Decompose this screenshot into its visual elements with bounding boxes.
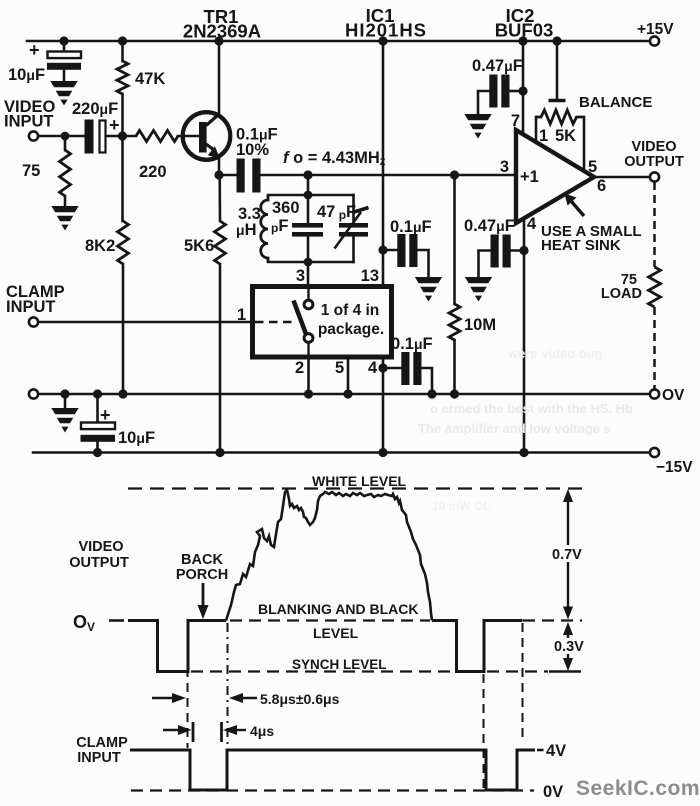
node OV pin5	[343, 389, 352, 398]
svg-text:were video oug: were video oug	[507, 346, 603, 361]
svg-text:7: 7	[511, 112, 520, 130]
svg-text:8K2: 8K2	[85, 237, 115, 255]
node OV pin2	[304, 389, 313, 398]
clamp 0V dashed line	[131, 789, 534, 791]
capacitor 0.47uF lower decoupling	[491, 235, 511, 268]
switch pin3 stub inside box	[307, 289, 309, 300]
wire dashed load to OV	[653, 307, 656, 389]
svg-text:BUF03: BUF03	[495, 20, 554, 41]
node OV 10uF	[93, 389, 102, 398]
switch lever	[294, 301, 307, 335]
svg-text:+15V: +15V	[637, 21, 674, 38]
measure tick bar left	[192, 722, 195, 742]
dashed vertical back porch start	[187, 623, 189, 748]
wire tank node drop	[307, 175, 310, 195]
svg-text:+1: +1	[520, 168, 539, 186]
measure tick bar right	[220, 722, 223, 742]
svg-text:5K: 5K	[555, 127, 576, 145]
wire 0.1uF to tank node	[261, 174, 309, 177]
video waveform blanking baseline left	[128, 621, 226, 672]
svg-text:0V: 0V	[543, 783, 563, 801]
clamp input waveform	[130, 750, 535, 790]
wire 0.1uF pin4 return	[422, 368, 433, 394]
svg-text:OUTPUT: OUTPUT	[69, 555, 129, 571]
svg-text:2: 2	[295, 359, 304, 377]
wire IC1 pin13 supply column	[382, 41, 385, 285]
wire 10uF bottom cap to -15V	[96, 442, 99, 453]
node top rail 47K	[118, 36, 127, 45]
svg-text:4V: 4V	[546, 742, 566, 760]
capacitor 0.1uF emitter coupling	[237, 159, 261, 193]
svg-text:package.: package.	[318, 321, 384, 338]
node pin4 cap tap	[378, 363, 387, 372]
synch level solid bar under arrow	[549, 670, 581, 673]
node OV 8K2	[118, 389, 127, 398]
svg-text:pF: pF	[271, 217, 288, 235]
svg-text:SeekIC.com: SeekIC.com	[576, 777, 700, 800]
wire 10uF top cap stem	[63, 41, 66, 52]
svg-text:CLAMP: CLAMP	[76, 735, 128, 751]
wire 0.47uF top to ground	[478, 91, 489, 114]
wire 360pF branch top	[307, 195, 310, 223]
svg-text:INPUT: INPUT	[4, 113, 54, 131]
svg-text:HEAT SINK: HEAT SINK	[541, 237, 621, 254]
wire op-amp output	[594, 176, 650, 179]
transistor base bar	[199, 122, 207, 153]
terminal video output	[650, 172, 659, 181]
potentiometer 5K balance	[536, 110, 584, 124]
resistor 5K6	[215, 221, 226, 264]
4V tick dash	[537, 749, 544, 752]
capacitor 0.47uF top decoupling	[489, 75, 509, 108]
dashed vertical second sync	[483, 674, 485, 788]
svg-text:+: +	[109, 115, 120, 135]
potentiometer wiper bar	[549, 99, 566, 102]
switch dashed control line	[255, 321, 296, 323]
wire balance pot right leg	[583, 117, 586, 171]
svg-text:0.47μF: 0.47μF	[472, 57, 523, 75]
svg-text:47K: 47K	[135, 70, 165, 88]
svg-text:10M: 10M	[464, 316, 496, 334]
svg-text:5.8μs±0.6μs: 5.8μs±0.6μs	[260, 691, 340, 707]
wire video input to node	[38, 135, 84, 138]
white level dashed line	[128, 487, 582, 489]
svg-text:LOAD: LOAD	[601, 286, 642, 302]
back porch arrow	[198, 583, 209, 619]
svg-text:3: 3	[296, 267, 305, 285]
wire emitter node to 0.1uF	[219, 174, 237, 177]
svg-text:6: 6	[597, 177, 606, 195]
wire 47K column top	[121, 41, 124, 61]
svg-text:13: 13	[361, 267, 379, 285]
wire balance pot left leg	[535, 117, 538, 143]
svg-text:OV: OV	[662, 387, 685, 404]
svg-text:4μs: 4μs	[250, 723, 274, 739]
video waveform baseline right and sync pulse	[432, 621, 523, 672]
svg-text:0.1μF: 0.1μF	[390, 218, 432, 236]
svg-text:BALANCE: BALANCE	[579, 94, 652, 111]
svg-text:1: 1	[237, 306, 246, 324]
node tank bottom	[304, 258, 313, 267]
svg-text:HI201HS: HI201HS	[345, 20, 427, 41]
svg-text:0.47μF: 0.47μF	[464, 217, 515, 235]
ground 0.1uF pin13	[415, 277, 442, 302]
resistor 75	[60, 150, 71, 196]
wire 47K to base node	[121, 94, 124, 221]
wire tank top horizontal	[268, 194, 354, 197]
capacitor 0.1uF pin4 decoupling	[401, 352, 421, 385]
node -15V pin4	[378, 448, 387, 457]
node OV 10M	[450, 389, 459, 398]
terminal OV left	[29, 389, 38, 398]
svg-text:0.1μF: 0.1μF	[391, 335, 433, 353]
wire +15V top rail	[27, 40, 650, 43]
svg-text:5K6: 5K6	[184, 237, 214, 255]
wire 0.47uF lower to ground	[479, 251, 491, 278]
svg-text:WHITE LEVEL: WHITE LEVEL	[312, 473, 407, 489]
wire 5K6 to -15V rail	[219, 264, 222, 453]
node -15V opamp	[519, 448, 528, 457]
resistor 8K2	[118, 221, 129, 264]
svg-text:10 mW OL: 10 mW OL	[432, 499, 491, 513]
svg-text:OUTPUT: OUTPUT	[624, 154, 684, 170]
node 10M top	[450, 170, 459, 179]
svg-text:INPUT: INPUT	[6, 298, 56, 316]
svg-text:LEVEL: LEVEL	[313, 625, 359, 641]
ground below 10uF top	[50, 81, 77, 106]
transistor Q1 circle	[183, 112, 231, 160]
node top rail IC1 supply	[378, 36, 387, 45]
capacitor 10uF bottom electrolytic	[81, 423, 116, 442]
wire 0.47uF lower tap	[506, 249, 525, 252]
wire 10M top	[453, 175, 456, 304]
0.7V arrow	[563, 489, 573, 620]
wire 8K2 to OV rail	[122, 264, 125, 394]
svg-text:f o = 4.43MHz: f o = 4.43MHz	[283, 149, 386, 168]
node top rail 10uF	[59, 36, 68, 45]
blanking dashed right	[523, 619, 582, 621]
terminal -15V	[650, 448, 659, 457]
node base bias	[118, 131, 127, 140]
synch level dashed right	[487, 670, 548, 672]
wire tank bottom horizontal	[268, 261, 354, 264]
wire pin13 decoupling tap	[383, 249, 397, 252]
wire balance wiper	[556, 41, 559, 100]
wire pin4 decoupling tap	[383, 367, 401, 370]
node OV cap return	[427, 389, 436, 398]
svg-text:47 pF: 47 pF	[317, 203, 356, 222]
resistor 220	[136, 131, 178, 142]
svg-text:5: 5	[335, 359, 344, 377]
wire 0.1uF pin13 return	[416, 250, 429, 277]
blanking dashed under hump	[230, 619, 430, 621]
svg-text:360: 360	[272, 199, 300, 217]
svg-text:3: 3	[500, 158, 509, 176]
capacitor 47pF variable	[339, 223, 368, 237]
wire signal line tank node to 10M node	[308, 174, 455, 177]
svg-text:PORCH: PORCH	[176, 567, 228, 583]
ground on OV rail	[51, 408, 78, 433]
inductor 3.3uH	[261, 195, 268, 262]
svg-text:10μF: 10μF	[118, 429, 155, 447]
wire signal to op-amp pin 3	[455, 174, 517, 177]
svg-text:75: 75	[22, 162, 40, 180]
4us arrow left	[163, 725, 192, 735]
wire 10uF bottom cap stem	[96, 394, 99, 423]
wire 0.47uF top tap	[510, 90, 523, 93]
wire 75 resistor stem	[64, 136, 67, 150]
capacitor 0.1uF pin13 decoupling	[397, 234, 417, 267]
wire 360pF branch bottom	[307, 237, 310, 263]
svg-text:+: +	[29, 40, 40, 60]
transistor emitter arrowhead	[208, 146, 220, 158]
svg-text:4: 4	[368, 359, 378, 377]
svg-text:10%: 10%	[236, 141, 269, 159]
wire 10M bottom	[453, 340, 456, 394]
svg-text:0.3V: 0.3V	[554, 639, 584, 655]
wire 10uF top cap to ground	[63, 70, 66, 82]
capacitor 10uF top electrolytic	[47, 52, 81, 70]
node pin13 cap tap	[378, 245, 387, 254]
wire switch pin 2	[307, 359, 310, 394]
node video input	[61, 132, 70, 141]
svg-text:+: +	[100, 405, 111, 425]
Ov tick dash	[109, 619, 124, 622]
svg-text:BLANKING AND BLACK: BLANKING AND BLACK	[258, 601, 418, 617]
svg-text:The amplifier and low voltage: The amplifier and low voltage s	[418, 421, 611, 436]
op-amp U2 triangle	[516, 130, 594, 223]
svg-text:10μF: 10μF	[8, 66, 45, 84]
switch pin2 stub inside box	[307, 342, 309, 355]
wire clamp input to switch pin 1	[38, 321, 250, 324]
wire ground stub on OV rail	[64, 394, 67, 408]
wire 220uF cap to base node	[107, 135, 137, 138]
svg-text:1: 1	[539, 127, 548, 145]
resistor 10M	[449, 304, 460, 340]
node 0.47uF top tap	[518, 86, 527, 95]
resistor 75 LOAD	[649, 267, 661, 307]
terminal +15V	[650, 36, 659, 45]
wire switch pin 4	[382, 359, 385, 453]
terminal video input	[29, 131, 38, 140]
wire collector	[218, 41, 221, 113]
terminal OV	[650, 389, 659, 398]
wire emitter column to 5K6	[218, 175, 221, 221]
wire emitter down	[218, 156, 221, 175]
synch level dashed	[191, 670, 453, 672]
0.3V arrow	[563, 622, 573, 671]
trimmer arrow 47pF	[335, 208, 369, 249]
wire dashed output to load	[653, 182, 656, 267]
svg-text:μH: μH	[236, 221, 257, 239]
svg-text:VIDEO: VIDEO	[78, 539, 123, 555]
wire 47pF branch bottom	[352, 237, 355, 263]
wire op-amp pin4 down	[523, 219, 526, 453]
4us arrow right	[223, 725, 246, 735]
svg-text:1 of 4 in: 1 of 4 in	[321, 302, 380, 319]
svg-text:220: 220	[139, 163, 167, 181]
ground 0.47uF top	[464, 114, 491, 139]
svg-text:4: 4	[527, 215, 537, 233]
svg-text:INPUT: INPUT	[77, 750, 121, 766]
svg-text:5: 5	[588, 158, 597, 176]
switch top contact	[304, 300, 313, 309]
capacitor 220uF electrolytic	[85, 120, 106, 154]
node top rail collector	[214, 36, 223, 45]
transistor collector stroke	[206, 114, 220, 126]
5.8us arrow right	[229, 693, 257, 703]
node emitter	[214, 170, 223, 179]
terminal clamp input	[29, 317, 38, 326]
node OV ground	[60, 389, 69, 398]
node -15V 10uF	[93, 448, 102, 457]
ground below 75	[51, 206, 78, 231]
svg-text:VIDEO: VIDEO	[631, 139, 676, 155]
svg-text:−15V: −15V	[656, 459, 693, 476]
wire 75 to ground	[64, 196, 67, 206]
wire IC2 supply column	[522, 41, 525, 135]
svg-text:OV: OV	[73, 612, 95, 634]
node opamp pin4 cap tap	[519, 246, 528, 255]
video waveform hump	[226, 490, 432, 621]
transistor emitter stroke	[206, 144, 216, 152]
svg-text:SYNCH LEVEL: SYNCH LEVEL	[292, 657, 387, 672]
switch bottom contact	[304, 334, 313, 343]
node top rail wiper	[552, 36, 561, 45]
switch box IC1	[253, 287, 392, 358]
svg-text:2N2369A: 2N2369A	[183, 21, 261, 42]
svg-text:BACK: BACK	[181, 552, 223, 568]
svg-text:0.7V: 0.7V	[552, 547, 582, 563]
resistor 47K	[117, 61, 128, 94]
capacitor 360pF	[292, 223, 323, 237]
heat sink arrow	[565, 194, 585, 217]
5.8us arrow left	[152, 693, 186, 703]
dash-dot vertical hump start	[227, 623, 229, 788]
wire OV rail	[38, 393, 650, 396]
node tank tap	[303, 170, 312, 179]
ground 0.47uF lower	[465, 277, 492, 302]
wire -15V rail	[33, 451, 650, 454]
node tank top	[304, 191, 313, 200]
wire switch pin 5	[347, 359, 350, 394]
dashed vertical clamp rise	[522, 623, 524, 741]
svg-text:o ermed the best with the HS.: o ermed the best with the HS. Hb	[430, 401, 633, 416]
node top rail IC2 supply	[518, 36, 527, 45]
wire tank bottom to switch pin 3	[307, 262, 310, 285]
wire 47pF branch top	[352, 195, 355, 223]
node -15V 5K6	[215, 448, 224, 457]
wire base node to transistor base	[178, 135, 199, 138]
